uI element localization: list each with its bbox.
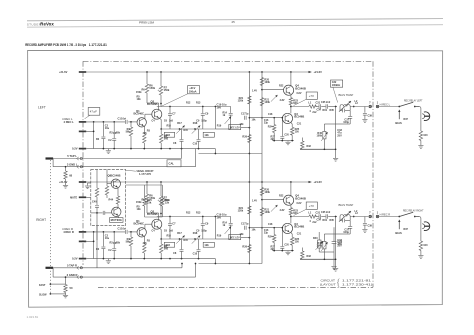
svg-text:BIAS: BIAS [395, 231, 402, 235]
svg-text:56k: 56k [126, 131, 131, 134]
svg-text:100kHz: 100kHz [332, 84, 341, 87]
svg-text:+21.6V: +21.6V [59, 180, 68, 184]
svg-text:100p: 100p [343, 121, 349, 124]
svg-text:BIAS TRAP: BIAS TRAP [339, 203, 354, 207]
svg-text:SLOW: SLOW [39, 294, 47, 297]
svg-text:R22: R22 [279, 195, 284, 198]
svg-text:ReVox: ReVox [40, 22, 54, 27]
svg-text:100k: 100k [264, 81, 270, 84]
svg-text:120k: 120k [238, 210, 244, 213]
svg-text:R31: R31 [323, 109, 328, 112]
svg-text:R15: R15 [184, 129, 189, 132]
svg-text:R35: R35 [330, 109, 335, 112]
svg-text:10k: 10k [252, 119, 257, 122]
svg-text:C18: C18 [268, 223, 273, 226]
svg-text:100: 100 [423, 134, 428, 137]
svg-text:R44: R44 [109, 199, 114, 202]
svg-text:1.4V: 1.4V [252, 200, 257, 203]
svg-text:+21.6V: +21.6V [59, 70, 68, 74]
svg-text:1.177.270: 1.177.270 [139, 172, 151, 176]
svg-text:150: 150 [295, 131, 300, 134]
svg-text:Q1: Q1 [136, 109, 140, 113]
svg-text:10k: 10k [240, 233, 245, 236]
svg-text:+7V: +7V [309, 204, 314, 208]
svg-text:C21: C21 [297, 232, 302, 235]
svg-text:R22: R22 [279, 85, 284, 88]
svg-text:100p: 100p [343, 231, 349, 234]
svg-text:C21: C21 [297, 122, 302, 125]
svg-text:R12: R12 [186, 102, 191, 105]
svg-text:5 TAP R: 5 TAP R [67, 264, 77, 268]
svg-text:16V: 16V [217, 105, 222, 109]
svg-text:R16: R16 [167, 125, 172, 128]
svg-text:R26: R26 [242, 246, 247, 249]
svg-text:1.177.221-81: 1.177.221-81 [89, 43, 107, 47]
svg-text:BC546B: BC546B [295, 196, 306, 200]
svg-text:R16: R16 [167, 235, 172, 238]
svg-text:6.8V: 6.8V [297, 202, 302, 205]
svg-text:MUTE: MUTE [70, 197, 77, 200]
svg-text:22p: 22p [264, 121, 269, 124]
svg-text:25V: 25V [337, 134, 342, 137]
svg-text:R32: R32 [307, 145, 312, 148]
svg-text:1n5: 1n5 [169, 230, 174, 233]
svg-text:150k: 150k [149, 86, 155, 90]
svg-text:R19: R19 [217, 125, 222, 128]
svg-text:2.8V: 2.8V [280, 209, 285, 212]
svg-text:120k: 120k [238, 100, 244, 103]
svg-text:25: 25 [232, 20, 236, 24]
svg-text:C34: C34 [317, 219, 322, 222]
svg-text:2n2: 2n2 [312, 221, 317, 224]
svg-text:10k: 10k [240, 123, 245, 126]
svg-text:R31: R31 [323, 219, 328, 222]
svg-text:C39: C39 [368, 115, 373, 118]
svg-text:120k: 120k [264, 211, 270, 214]
svg-text:1.023.81: 1.023.81 [27, 315, 39, 319]
svg-text:R32: R32 [307, 255, 312, 258]
svg-text:R18: R18 [193, 122, 198, 125]
svg-text:BIAS: BIAS [395, 121, 402, 125]
svg-text:R13: R13 [196, 212, 201, 215]
svg-text:4 REC R: 4 REC R [62, 227, 73, 231]
svg-text:150: 150 [295, 241, 300, 244]
svg-text:1n5: 1n5 [169, 120, 174, 123]
svg-text:C39: C39 [368, 225, 373, 228]
svg-text:+21.6V: +21.6V [314, 180, 323, 184]
svg-text:R24: R24 [268, 126, 273, 129]
svg-text:C35 2n2: C35 2n2 [321, 211, 331, 214]
svg-text:REC LEV: REC LEV [230, 127, 240, 129]
svg-text:RECORD AMPLIFIER PCB 1N99 1 7: RECORD AMPLIFIER PCB 1N99 1 7/8 - 3 3/4 … [25, 43, 86, 47]
svg-text:C40: C40 [92, 201, 97, 204]
svg-text:100p: 100p [201, 230, 207, 233]
svg-text:R12: R12 [186, 212, 191, 215]
svg-text:+7V: +7V [309, 94, 314, 98]
svg-text:100: 100 [423, 244, 428, 247]
svg-text:10k: 10k [137, 98, 142, 101]
svg-text:12k: 12k [204, 133, 209, 137]
svg-text:C31: C31 [316, 212, 321, 215]
svg-text:5k6: 5k6 [166, 243, 171, 247]
svg-text:RIGHT: RIGHT [36, 218, 46, 222]
svg-text:BC546B: BC546B [295, 86, 306, 90]
svg-text:Q2: Q2 [151, 100, 155, 104]
svg-text:+21.6V: +21.6V [314, 70, 323, 74]
svg-text:(LAYOUT: (LAYOUT [320, 283, 336, 287]
svg-text:C10: C10 [193, 253, 198, 256]
svg-text:BC546B: BC546B [111, 174, 121, 178]
svg-text:1.177.230-41): 1.177.230-41) [342, 283, 373, 287]
svg-text:1.4V: 1.4V [252, 90, 257, 93]
svg-text:REC RELAY RIGHT: REC RELAY RIGHT [403, 208, 424, 212]
svg-text:0.2V: 0.2V [72, 147, 78, 151]
svg-text:R37: R37 [404, 118, 409, 121]
svg-text:47u: 47u [338, 243, 343, 246]
svg-text:BC546B: BC546B [294, 115, 304, 119]
svg-text:15k: 15k [147, 200, 152, 204]
svg-text:R24: R24 [268, 236, 273, 239]
svg-text:BC546B: BC546B [294, 225, 304, 229]
svg-text:R18: R18 [193, 232, 198, 235]
svg-text:C10: C10 [193, 143, 198, 146]
svg-text:0.2V: 0.2V [72, 257, 78, 261]
svg-text:PR99 LSM: PR99 LSM [139, 20, 155, 24]
svg-text:3k3: 3k3 [271, 138, 276, 141]
svg-text:150k: 150k [136, 91, 142, 94]
svg-text:5 TAP L: 5 TAP L [67, 154, 77, 158]
svg-text:R13: R13 [196, 102, 201, 105]
svg-text:3k3: 3k3 [271, 248, 276, 251]
svg-text:C18: C18 [268, 113, 273, 116]
svg-text:47 pF: 47 pF [90, 110, 97, 114]
svg-text:R19: R19 [217, 235, 222, 238]
svg-text:R17: R17 [177, 232, 182, 235]
svg-text:68k: 68k [116, 242, 121, 245]
svg-text:100k: 100k [264, 191, 270, 194]
svg-text:12k: 12k [204, 243, 209, 247]
svg-text:CAL: CAL [169, 161, 175, 165]
svg-text:3 GND R: 3 GND R [67, 273, 78, 277]
svg-text:R35: R35 [330, 219, 335, 222]
svg-text:22k: 22k [143, 242, 148, 245]
svg-text:150k: 150k [164, 88, 170, 92]
svg-text:H REC L: H REC L [380, 102, 391, 106]
svg-text:R15: R15 [184, 239, 189, 242]
svg-text:R17: R17 [177, 122, 182, 125]
svg-text:100k: 100k [316, 135, 322, 138]
svg-text:C20: C20 [284, 243, 289, 246]
svg-text:C31: C31 [316, 102, 321, 105]
svg-text:68k: 68k [116, 132, 121, 135]
svg-text:100p: 100p [201, 120, 207, 123]
svg-text:6.8V: 6.8V [297, 92, 302, 95]
svg-text:100uA: 100uA [189, 89, 197, 93]
svg-text:5k6: 5k6 [166, 133, 171, 137]
svg-text:R26: R26 [242, 136, 247, 139]
svg-text:150k: 150k [136, 201, 142, 204]
svg-text:2.8V: 2.8V [280, 99, 285, 102]
svg-text:Q2: Q2 [151, 210, 155, 214]
svg-text:MUTING: MUTING [111, 220, 122, 222]
svg-text:120k: 120k [264, 101, 270, 104]
svg-text:C34: C34 [317, 109, 322, 112]
svg-text:10u: 10u [105, 237, 110, 240]
svg-text:R40: R40 [313, 237, 318, 240]
svg-text:H REC R: H REC R [380, 212, 391, 216]
svg-text:2n2: 2n2 [312, 111, 317, 114]
svg-text:BIAS TRAP: BIAS TRAP [339, 93, 354, 97]
svg-text:50: 50 [70, 286, 73, 290]
svg-text:3 GND L: 3 GND L [67, 162, 78, 166]
svg-text:1u: 1u [246, 223, 249, 226]
svg-text:LEFT: LEFT [38, 105, 46, 109]
svg-text:10k: 10k [252, 229, 257, 232]
svg-text:FAST: FAST [39, 284, 46, 287]
svg-text:REC LEV: REC LEV [230, 237, 240, 239]
svg-text:10u: 10u [105, 127, 110, 130]
svg-text:16V: 16V [217, 215, 222, 219]
svg-text:Q1: Q1 [136, 219, 140, 223]
svg-text:10k: 10k [137, 208, 142, 211]
svg-text:R37: R37 [404, 228, 409, 231]
svg-text:1u: 1u [246, 113, 249, 116]
svg-text:56k: 56k [126, 241, 131, 244]
svg-text:C35 2n2: C35 2n2 [321, 101, 331, 104]
svg-text:4 REC L: 4 REC L [62, 117, 73, 121]
svg-text:C20: C20 [284, 133, 289, 136]
svg-text:12k: 12k [165, 200, 170, 204]
svg-text:22k: 22k [143, 132, 148, 135]
svg-text:REC RELAY LEFT: REC RELAY LEFT [404, 98, 423, 102]
svg-text:22p: 22p [264, 231, 269, 234]
